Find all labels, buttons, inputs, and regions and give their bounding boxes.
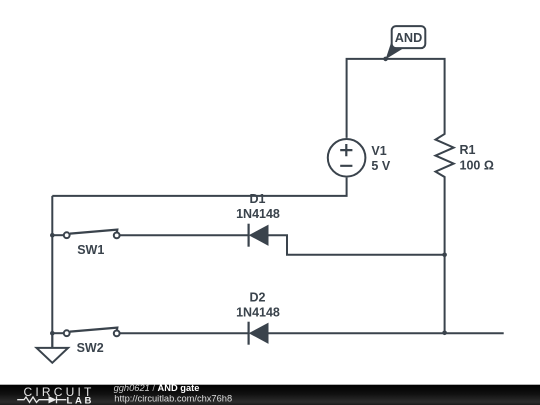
switch SW2 xyxy=(64,328,120,355)
wire top rail from V1 top to R1 top xyxy=(347,59,445,138)
node dot AND xyxy=(383,57,388,62)
resistor R1 xyxy=(436,133,494,178)
voltage source V1 xyxy=(328,139,391,177)
svg-text:LAB: LAB xyxy=(67,396,95,405)
wire SW1 to D1 xyxy=(120,234,249,236)
wire ground stem xyxy=(51,333,53,348)
svg-text:ggh0621 / AND gate: ggh0621 / AND gate xyxy=(114,383,200,393)
junction dot D2 out / R1 xyxy=(442,331,447,336)
svg-text:http://circuitlab.com/chx76h8: http://circuitlab.com/chx76h8 xyxy=(114,393,232,403)
svg-text:SW1: SW1 xyxy=(77,243,104,257)
wire rail to SW1 xyxy=(52,234,63,236)
wire R1 bottom vertical xyxy=(444,178,446,333)
svg-text:D1: D1 xyxy=(250,192,266,206)
svg-text:V1: V1 xyxy=(371,144,386,158)
svg-text:AND: AND xyxy=(395,31,423,45)
svg-text:1N4148: 1N4148 xyxy=(236,207,280,221)
node AND flag xyxy=(386,26,426,59)
svg-text:SW2: SW2 xyxy=(77,341,104,355)
svg-text:5 V: 5 V xyxy=(371,159,390,173)
ground xyxy=(37,348,69,363)
wire left rail xyxy=(51,196,53,348)
logo diode triangle xyxy=(49,396,57,403)
diode D2 xyxy=(236,291,280,345)
junction dot SW1 rail xyxy=(50,233,55,238)
logo icon resistor+diode xyxy=(17,396,66,403)
svg-text:D2: D2 xyxy=(250,291,266,305)
wire rail to SW2 xyxy=(52,332,63,334)
switch SW1 xyxy=(64,230,120,257)
wire SW2 to D2 xyxy=(120,332,249,334)
wire D2 output to right xyxy=(268,332,504,334)
junction dot SW2 rail xyxy=(50,331,55,336)
svg-text:1N4148: 1N4148 xyxy=(236,306,280,320)
diode D1 xyxy=(236,192,280,247)
junction dot D1 out / R1 xyxy=(442,253,447,258)
svg-text:100 Ω: 100 Ω xyxy=(460,159,494,173)
footer bar xyxy=(0,385,540,405)
svg-text:R1: R1 xyxy=(460,143,476,157)
wire V1 bottom to left rail xyxy=(52,178,346,196)
wire D1 output step to R1 node xyxy=(268,235,445,255)
